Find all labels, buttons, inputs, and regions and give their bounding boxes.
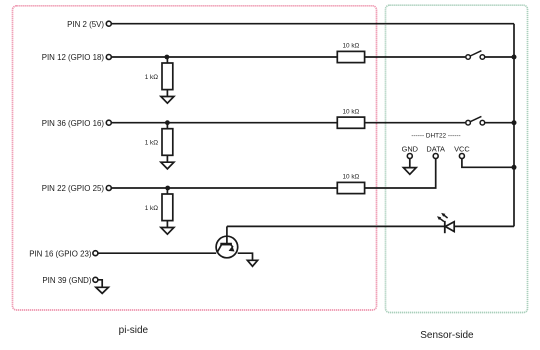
resistor R5 10 kOhm horizontal [337, 182, 364, 193]
wire S2 to bus [485, 122, 514, 124]
wire LED to bus corner [454, 225, 514, 227]
resistor R4 10 kOhm horizontal [337, 117, 364, 128]
wire R1 to ground [166, 90, 168, 97]
ground PIN 39 [96, 287, 109, 293]
terminal DHT22 DATA [433, 154, 438, 159]
svg-text:1 kΩ: 1 kΩ [145, 74, 159, 81]
junction node row2 [165, 55, 170, 60]
svg-text:PIN 12 (GPIO 18): PIN 12 (GPIO 18) [42, 53, 105, 62]
svg-text:------ DHT22 ------: ------ DHT22 ------ [411, 132, 460, 139]
Sensor-side boundary box [386, 5, 528, 312]
terminal DHT22 VCC [459, 154, 464, 159]
wire VCC pin to bus [462, 159, 514, 168]
wire R6 to ground [166, 221, 168, 228]
ground under DHT22 GND [403, 168, 416, 175]
svg-text:DATA: DATA [426, 144, 445, 153]
junction node bus row2 [512, 55, 517, 60]
wire PIN 39 to ground [98, 280, 102, 288]
wire VCC bus vertical [513, 24, 515, 227]
svg-text:PIN 39 (GND): PIN 39 (GND) [42, 276, 91, 285]
svg-text:PIN 16 (GPIO 23): PIN 16 (GPIO 23) [29, 249, 92, 258]
wire GND pin down [409, 159, 411, 168]
svg-text:1 kΩ: 1 kΩ [145, 205, 159, 212]
wire R3 to switch S1 [365, 56, 466, 58]
ground under R6 [161, 228, 174, 235]
wire PIN 12 to R3 [111, 56, 337, 58]
resistor R1 1 kOhm vertical [162, 63, 173, 90]
wire junction to R6 [166, 188, 168, 194]
ground at transistor emitter [247, 260, 257, 266]
terminal PIN 12 [106, 55, 111, 60]
svg-text:GND: GND [402, 144, 418, 153]
svg-text:Sensor-side: Sensor-side [420, 330, 474, 341]
svg-text:PIN 22 (GPIO 25): PIN 22 (GPIO 25) [42, 184, 105, 193]
pi-side boundary box [13, 6, 377, 310]
transistor Q1 [216, 236, 238, 258]
resistor R2 1 kOhm vertical [162, 129, 173, 156]
svg-text:10 kΩ: 10 kΩ [342, 174, 359, 181]
svg-text:pi-side: pi-side [119, 325, 149, 336]
switch S2 [466, 116, 485, 125]
wire PIN 2 row to top-right corner [111, 23, 514, 25]
svg-text:10 kΩ: 10 kΩ [342, 108, 359, 115]
wire junction to R2 [166, 123, 168, 129]
junction node row4 [165, 186, 170, 191]
switch S1 [466, 51, 485, 60]
wire PIN 16 to transistor base [98, 252, 216, 254]
junction node bus VCC [512, 165, 517, 170]
wire R4 to switch S2 [365, 122, 466, 124]
wire R2 to ground [166, 155, 168, 162]
junction node row3 [165, 120, 170, 125]
terminal DHT22 GND [407, 154, 412, 159]
terminal PIN 22 [106, 186, 111, 191]
svg-text:PIN 2 (5V): PIN 2 (5V) [67, 20, 104, 29]
wire PIN 36 to R4 [111, 122, 337, 124]
terminal PIN 16 [93, 251, 98, 256]
wire transistor emitter to ground [238, 253, 253, 260]
svg-text:PIN 36 (GPIO 16): PIN 36 (GPIO 16) [42, 119, 105, 128]
wire S1 to bus [485, 56, 514, 58]
resistor R3 10 kOhm horizontal [337, 51, 364, 62]
wire collector row to LED [227, 225, 445, 227]
terminal PIN 39 [93, 277, 98, 282]
ground under R2 [161, 162, 174, 169]
LED D1 [437, 213, 454, 233]
junction node bus row3 [512, 120, 517, 125]
wire PIN 22 to R5 [111, 187, 337, 189]
wire junction to R1 [166, 57, 168, 63]
svg-text:10 kΩ: 10 kΩ [342, 43, 359, 50]
wire transistor collector up [226, 226, 228, 236]
ground under R1 [161, 97, 174, 104]
svg-text:VCC: VCC [454, 144, 470, 153]
svg-text:1 kΩ: 1 kΩ [145, 140, 159, 147]
wire R5 to DATA riser [365, 159, 436, 188]
terminal PIN 36 [106, 120, 111, 125]
resistor R6 1 kOhm vertical [162, 194, 173, 221]
terminal PIN 2 [106, 21, 111, 26]
